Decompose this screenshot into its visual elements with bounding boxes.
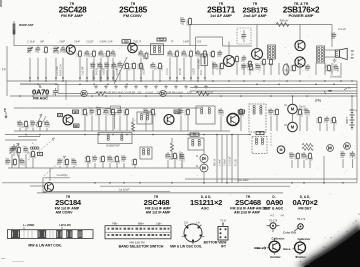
resistor second row bbox=[140, 62, 142, 64]
capacitor bbox=[46, 120, 48, 122]
svg-text:M: M bbox=[280, 148, 283, 152]
resistor bbox=[319, 116, 321, 118]
wire driver verticals bbox=[228, 42, 230, 56]
resistor bbox=[221, 62, 223, 64]
dark label box near TR6a bbox=[239, 110, 245, 113]
svg-text:C5uF: C5uF bbox=[9, 146, 12, 152]
svg-text:30P: 30P bbox=[338, 67, 340, 72]
transistor TR4 2SB171 bbox=[224, 56, 235, 67]
svg-text:T1-8: T1-8 bbox=[220, 219, 226, 223]
svg-text:AM 1st IF AMP: AM 1st IF AMP bbox=[146, 211, 171, 215]
label TR5 2SB175 2nd AF AMP bbox=[243, 2, 268, 18]
capacitor bbox=[91, 108, 93, 110]
svg-text:2.2K: 2.2K bbox=[336, 119, 338, 124]
svg-text:D.: D. bbox=[196, 165, 199, 168]
resistor bbox=[112, 108, 114, 110]
svg-text:C30P: C30P bbox=[268, 108, 271, 114]
svg-text:D.: D. bbox=[196, 155, 199, 158]
dark label box LV bbox=[58, 114, 63, 117]
svg-text:R470: R470 bbox=[237, 109, 240, 115]
resistor bbox=[87, 155, 89, 157]
svg-text:10uF: 10uF bbox=[241, 33, 244, 39]
svg-text:M: M bbox=[291, 107, 295, 112]
resistor bbox=[152, 108, 154, 110]
svg-text:LA: LA bbox=[196, 221, 200, 225]
resistor R8 bbox=[159, 62, 161, 64]
output transformer T7 bbox=[317, 46, 325, 63]
svg-text:0.01: 0.01 bbox=[167, 51, 170, 56]
capacitor bbox=[335, 64, 337, 66]
svg-text:R 6.8K: R 6.8K bbox=[180, 68, 182, 75]
capacitor C4 bbox=[62, 46, 64, 48]
capacitor bbox=[307, 64, 309, 66]
wire bus y84 bbox=[20, 83, 357, 85]
wire bus y93 bbox=[200, 93, 357, 95]
svg-text:20P: 20P bbox=[115, 53, 117, 58]
capacitor second row bbox=[92, 62, 94, 64]
svg-text:R56K: R56K bbox=[294, 153, 297, 159]
IFT box T2 bbox=[137, 112, 152, 124]
AM antenna arrows bbox=[36, 114, 46, 127]
svg-text:MW & LW OSC COIL: MW & LW OSC COIL bbox=[170, 244, 202, 248]
svg-text:20P: 20P bbox=[76, 161, 78, 166]
wire bus y186 bbox=[100, 185, 290, 187]
wire bus y183 bbox=[2, 182, 357, 184]
svg-text:C20P: C20P bbox=[241, 63, 244, 69]
wire bus y96 bbox=[10, 95, 357, 97]
svg-text:FM DET: FM DET bbox=[298, 207, 312, 211]
resistor R4 bbox=[146, 52, 148, 54]
vertical wires detector strip bbox=[216, 135, 218, 183]
svg-text:R220: R220 bbox=[36, 121, 39, 127]
wire left edge vertical bbox=[6, 46, 8, 96]
capacitor bbox=[105, 108, 107, 110]
capacitor bbox=[220, 108, 222, 110]
svg-text:33K: 33K bbox=[143, 55, 146, 60]
wire lower rail y168 bbox=[8, 167, 200, 169]
svg-text:C+100uF: C+100uF bbox=[230, 156, 232, 166]
capacitor bbox=[167, 152, 169, 154]
svg-text:C10uF: C10uF bbox=[340, 150, 343, 158]
resistor bbox=[309, 152, 311, 154]
small box label T bbox=[38, 152, 43, 155]
svg-text:Ca 10uF: Ca 10uF bbox=[119, 187, 130, 191]
resistor bbox=[293, 64, 295, 66]
wire TR3 base bbox=[30, 185, 45, 187]
resistor bbox=[18, 146, 20, 148]
diode D6 0A70 bbox=[344, 143, 351, 150]
wire y136 bbox=[18, 136, 40, 138]
svg-text:C100P: C100P bbox=[212, 61, 215, 69]
IFT T4 box bbox=[140, 147, 152, 159]
label D1 0A70 FM AGC bbox=[32, 84, 49, 100]
resistor R14 zigzag bbox=[196, 92, 209, 96]
svg-text:0.02: 0.02 bbox=[260, 66, 262, 71]
svg-text:1K: 1K bbox=[243, 113, 245, 116]
svg-text:R560: R560 bbox=[123, 109, 126, 115]
resistor lower bbox=[14, 158, 16, 160]
IFT T5 box bbox=[188, 138, 204, 150]
svg-text:C10uF: C10uF bbox=[89, 107, 92, 115]
svg-text:10uF: 10uF bbox=[217, 51, 220, 57]
svg-text:18P: 18P bbox=[40, 41, 45, 44]
svg-text:BATT: BATT bbox=[345, 116, 349, 123]
junction sub box bbox=[111, 106, 121, 113]
resistor second row bbox=[126, 62, 128, 64]
svg-text:5uF: 5uF bbox=[241, 57, 244, 62]
svg-text:C0.04: C0.04 bbox=[304, 108, 307, 115]
svg-text:0.01: 0.01 bbox=[184, 157, 186, 162]
IFT T2 box bbox=[98, 133, 132, 144]
svg-text:R220: R220 bbox=[11, 159, 14, 165]
svg-text:10uF: 10uF bbox=[309, 110, 311, 116]
svg-text:100: 100 bbox=[73, 111, 78, 114]
svg-text:R220: R220 bbox=[247, 64, 250, 70]
capacitor bbox=[73, 158, 75, 160]
svg-text:FM AGC: FM AGC bbox=[33, 96, 48, 100]
capacitor bbox=[291, 152, 293, 154]
capacitor C6 bbox=[100, 50, 102, 52]
svg-text:R33K: R33K bbox=[149, 109, 152, 115]
svg-text:Collector: Collector bbox=[297, 237, 311, 241]
wire bus y81 bbox=[7, 80, 357, 82]
svg-text:FM CONV: FM CONV bbox=[123, 13, 142, 18]
svg-text:R10K: R10K bbox=[113, 156, 116, 162]
svg-text:R330: R330 bbox=[171, 153, 174, 159]
svg-text:C0.04: C0.04 bbox=[121, 155, 124, 162]
capacitor bbox=[181, 154, 183, 156]
svg-text:0.04uF: 0.04uF bbox=[225, 158, 227, 166]
capacitor C7 bbox=[112, 50, 114, 52]
svg-text:R 1K: R 1K bbox=[201, 69, 203, 75]
capacitor bbox=[119, 108, 121, 110]
faint dash bottom left bbox=[1, 257, 5, 260]
svg-text:T.: T. bbox=[39, 153, 41, 156]
svg-text:C30uF: C30uF bbox=[5, 157, 8, 165]
svg-text:COUPLER: COUPLER bbox=[124, 92, 136, 95]
variable capacitor AM tuning bbox=[10, 144, 20, 157]
svg-text:C 10uF: C 10uF bbox=[27, 41, 35, 44]
resistor zigzag vertical bbox=[170, 143, 173, 151]
capacitor lower bbox=[7, 158, 9, 160]
svg-text:L.: L. bbox=[32, 142, 34, 145]
osc coil bottom view bbox=[182, 221, 205, 245]
electrolytic cap near 0A70 bbox=[55, 88, 57, 91]
svg-text:C5P: C5P bbox=[324, 118, 327, 123]
FM osc coil box bbox=[151, 44, 164, 55]
svg-text:100K: 100K bbox=[162, 65, 164, 71]
svg-text:W1656700P: W1656700P bbox=[106, 145, 120, 148]
svg-text:AM 2nd IF AMP: AM 2nd IF AMP bbox=[234, 211, 261, 215]
svg-text:TB-17k: TB-17k bbox=[297, 217, 306, 221]
svg-text:0.04: 0.04 bbox=[150, 63, 153, 68]
resistor bbox=[187, 108, 189, 110]
svg-text:C10P: C10P bbox=[218, 108, 221, 114]
wire speaker leads bbox=[325, 49, 335, 51]
coil L1 bbox=[45, 46, 47, 48]
svg-text:M: M bbox=[291, 125, 295, 130]
label TR4 2SC468 FM 2nd IF AMP AM 1st IF AMP bbox=[144, 195, 172, 215]
transistor TR7 2SB176 bbox=[295, 40, 305, 50]
capacitor C8 bbox=[140, 50, 142, 52]
svg-text:C10P: C10P bbox=[90, 62, 93, 68]
svg-text:0.04F: 0.04F bbox=[74, 41, 81, 44]
svg-text:WHIP ANT: WHIP ANT bbox=[19, 23, 34, 27]
svg-text:0.01uF: 0.01uF bbox=[146, 92, 154, 95]
svg-text:BAND SELECTOR SWITCH: BAND SELECTOR SWITCH bbox=[119, 245, 164, 249]
svg-text:7117: 7117 bbox=[159, 38, 165, 42]
jack M2 bbox=[288, 122, 298, 132]
svg-text:MW & LW ANT COIL: MW & LW ANT COIL bbox=[28, 243, 62, 247]
IFT bottom view bbox=[218, 219, 228, 241]
IFT box T3 bbox=[196, 106, 215, 124]
resistor bbox=[174, 152, 176, 154]
svg-text:100P: 100P bbox=[24, 160, 26, 166]
wire x324 vertical bbox=[323, 156, 325, 183]
resistor R3 bbox=[107, 50, 109, 52]
svg-text:4.7K: 4.7K bbox=[90, 52, 93, 57]
resistor bbox=[240, 108, 242, 110]
dashed vertical ratio box lower bbox=[270, 133, 272, 146]
svg-text:R100K: R100K bbox=[95, 108, 98, 116]
diode D5 0A70 bbox=[327, 145, 334, 152]
svg-text:RB: RB bbox=[74, 125, 78, 128]
transistor TR4a 2SC468 IF bbox=[164, 115, 174, 125]
svg-text:R56K: R56K bbox=[186, 19, 189, 25]
diode D3 1S1211 bbox=[200, 164, 208, 172]
ground row under FM section bbox=[94, 85, 214, 95]
svg-text:R1K: R1K bbox=[218, 64, 221, 69]
transistor TR3 2SC184 bbox=[45, 183, 54, 192]
tuning gang arrow bbox=[28, 138, 55, 160]
svg-text:C0.05: C0.05 bbox=[289, 152, 292, 159]
svg-text:C5P: C5P bbox=[111, 64, 114, 69]
svg-text:CA: CA bbox=[184, 221, 188, 225]
svg-text:2nd AF AMP: 2nd AF AMP bbox=[243, 13, 267, 18]
svg-text:C 0.01: C 0.01 bbox=[167, 68, 169, 75]
svg-text:R1K: R1K bbox=[306, 154, 309, 159]
wire diagonal TR2 to AGC bbox=[114, 57, 127, 84]
jack M3 bbox=[277, 146, 285, 154]
ratio det transformer box bbox=[249, 104, 266, 132]
svg-text:+(-): +(-) bbox=[270, 214, 274, 217]
resistor R10 bbox=[236, 55, 238, 57]
svg-text:Base: Base bbox=[283, 247, 291, 251]
capacitor second row bbox=[113, 62, 115, 64]
wire jack connectors bbox=[292, 96, 294, 104]
svg-text:5P: 5P bbox=[60, 49, 63, 52]
capacitor C13 bbox=[152, 62, 154, 64]
svg-text:22P: 22P bbox=[181, 52, 184, 57]
resistor bbox=[66, 158, 68, 160]
tuning gang arrow 2 bbox=[44, 156, 66, 176]
capacitor C2 bbox=[37, 46, 39, 48]
wire bus y134 bbox=[5, 134, 250, 136]
svg-text:IFT: IFT bbox=[221, 244, 226, 248]
resistor bbox=[116, 155, 118, 157]
svg-text:C05: C05 bbox=[197, 41, 202, 44]
capacitor bbox=[326, 116, 328, 118]
antenna whip bbox=[13, 21, 34, 46]
svg-text:VOLUME: VOLUME bbox=[199, 59, 201, 69]
svg-text:C10P: C10P bbox=[92, 155, 95, 161]
svg-text:C0517F: C0517F bbox=[133, 41, 142, 44]
resistor bbox=[102, 155, 104, 157]
svg-text:0.04uF: 0.04uF bbox=[116, 92, 124, 95]
label D2 D3 1S1211x2 AGC bbox=[190, 195, 222, 211]
svg-text:C45P: C45P bbox=[59, 41, 65, 44]
svg-text:0.04: 0.04 bbox=[355, 154, 357, 159]
resistor R12 bbox=[263, 58, 265, 60]
battery BATT bbox=[345, 107, 357, 130]
resistor R9 bbox=[212, 50, 214, 52]
capacitor top left of AF bbox=[182, 17, 184, 20]
capacitor C9 bbox=[169, 50, 171, 52]
svg-text:C4545: C4545 bbox=[99, 41, 107, 44]
svg-text:C50P: C50P bbox=[305, 64, 308, 70]
svg-text:C50P: C50P bbox=[44, 120, 47, 126]
wire FM top rail bbox=[14, 45, 207, 47]
capacitor bbox=[59, 158, 61, 160]
capacitor bbox=[123, 155, 125, 157]
svg-text:R330: R330 bbox=[316, 117, 319, 123]
svg-text:2.2 uF: 2.2 uF bbox=[338, 27, 346, 31]
svg-text:T.P: T.P bbox=[3, 108, 7, 112]
svg-text:Collector: Collector bbox=[271, 236, 285, 240]
ground speaker bbox=[334, 59, 336, 61]
wire AF input bbox=[196, 36, 223, 38]
capacitor bbox=[180, 108, 182, 110]
resistor bbox=[276, 108, 278, 110]
wire lower rail y140 bbox=[5, 139, 37, 141]
svg-text:100K: 100K bbox=[143, 65, 145, 71]
svg-text:C+4uF: C+4uF bbox=[220, 158, 222, 166]
capacitor lower bbox=[21, 158, 23, 160]
svg-text:Ca0.04F: Ca0.04F bbox=[83, 66, 85, 75]
svg-text:C100P: C100P bbox=[180, 16, 183, 24]
capacitor C11 bbox=[197, 50, 199, 52]
svg-text:0.01: 0.01 bbox=[110, 51, 113, 56]
diode D1b bbox=[160, 90, 166, 96]
wire right edge bus bbox=[356, 81, 358, 183]
ferrite rod MW LW ant coil bbox=[8, 223, 94, 238]
label TR3 2SC184 FM 1st IF AMP AM CONV bbox=[55, 195, 82, 215]
dark label box C05 bbox=[122, 40, 131, 43]
transistor TR3a 2SC184 IF bbox=[63, 115, 73, 125]
resistor R11 bbox=[249, 60, 251, 62]
svg-text:C5P: C5P bbox=[165, 154, 168, 159]
tiny labels above FM rail bbox=[27, 41, 202, 44]
wire power amp top rail bbox=[190, 24, 332, 26]
capacitor C16 2.2uF bbox=[333, 32, 335, 34]
label TR7 TR8 2SB176x2 POWER AMP bbox=[283, 2, 320, 18]
svg-text:1K: 1K bbox=[267, 62, 270, 65]
resistor R feedback 400 bbox=[276, 23, 289, 27]
svg-text:LW (LW): LW (LW) bbox=[59, 223, 70, 227]
svg-text:R2.2K: R2.2K bbox=[109, 108, 112, 115]
svg-text:C0.02: C0.02 bbox=[178, 108, 181, 115]
svg-text:0.04uF: 0.04uF bbox=[176, 92, 184, 95]
svg-text:C10uF: C10uF bbox=[333, 63, 336, 71]
svg-text:AGC: AGC bbox=[201, 207, 209, 211]
svg-text:C30P: C30P bbox=[97, 62, 100, 68]
capacitor bbox=[11, 146, 13, 148]
svg-text:C20P: C20P bbox=[179, 154, 182, 160]
wire y84 left bbox=[20, 83, 58, 85]
capacitor bbox=[270, 108, 272, 110]
svg-text:RtB 1K: RtB 1K bbox=[214, 158, 217, 166]
svg-text:R 2.2K: R 2.2K bbox=[236, 159, 238, 166]
svg-text:R 56K 10%: R 56K 10% bbox=[61, 64, 63, 76]
svg-text:10P: 10P bbox=[98, 52, 101, 57]
resistor bbox=[250, 63, 252, 65]
svg-text:10P: 10P bbox=[49, 123, 51, 128]
svg-text:R4.7K: R4.7K bbox=[130, 62, 133, 69]
capacitor C5 bbox=[86, 50, 88, 52]
capacitor bbox=[214, 62, 216, 64]
svg-text:10K: 10K bbox=[76, 53, 79, 58]
svg-text:C0.01: C0.01 bbox=[19, 158, 22, 165]
wire bus y179 bbox=[185, 178, 357, 180]
wire mid rail y108 bbox=[14, 107, 200, 109]
svg-text:C30uF: C30uF bbox=[117, 107, 120, 115]
svg-text:Ca+10uF: Ca+10uF bbox=[237, 178, 249, 182]
svg-text:C05: C05 bbox=[124, 40, 129, 44]
label TR2 2SC185 FM CONV bbox=[119, 2, 148, 18]
wire bus y91 bbox=[190, 90, 357, 92]
capacitor second row bbox=[106, 62, 108, 64]
svg-text:Demand(B): Demand(B) bbox=[330, 77, 342, 79]
resistor second row bbox=[133, 62, 135, 64]
resistor top left of AF bbox=[189, 17, 191, 19]
resistor bbox=[126, 108, 128, 110]
svg-text:C50P: C50P bbox=[301, 152, 304, 158]
svg-text:0.01: 0.01 bbox=[35, 47, 38, 52]
resistor R15 zigzag bbox=[96, 92, 106, 96]
dark label box near TR4a bbox=[174, 110, 180, 113]
svg-text:3.5P: 3.5P bbox=[108, 41, 113, 44]
label TR1 2SC428 FM RF AMP bbox=[59, 2, 88, 18]
capacitor bbox=[342, 151, 344, 153]
svg-text:C0.02: C0.02 bbox=[71, 158, 74, 165]
svg-text:C0.04: C0.04 bbox=[104, 62, 107, 69]
svg-text:C0.05: C0.05 bbox=[255, 63, 258, 70]
svg-text:4.7K: 4.7K bbox=[187, 92, 192, 95]
svg-text:C201F: C201F bbox=[86, 41, 94, 44]
label TR6 2SC468 FM 3rd IF AMP AM 2nd IF AMP bbox=[230, 195, 270, 215]
transistor TR2 2SC185 bbox=[128, 43, 138, 53]
jack M1 bbox=[288, 104, 298, 114]
resistor R13 bbox=[270, 58, 272, 60]
svg-text:T.P.: T.P. bbox=[2, 68, 7, 72]
wire x66 vertical bbox=[65, 80, 67, 100]
wire mid rail y131 bbox=[14, 130, 230, 132]
svg-text:1K: 1K bbox=[187, 54, 190, 57]
capacitor bbox=[145, 108, 147, 110]
svg-text:Base: Base bbox=[256, 246, 264, 250]
svg-text:C30P: C30P bbox=[107, 155, 110, 161]
resistor bbox=[98, 108, 100, 110]
svg-text:R330: R330 bbox=[137, 63, 140, 69]
capacitor C12 bbox=[119, 61, 121, 63]
wire slant bbox=[14, 146, 19, 161]
capacitor second row bbox=[99, 62, 101, 64]
svg-text:TS-17k: TS-17k bbox=[269, 218, 278, 222]
svg-text:LV: LV bbox=[58, 114, 61, 117]
scan noise speckles bbox=[15, 22, 347, 196]
svg-text:40P: 40P bbox=[117, 63, 120, 68]
svg-text:R15K: R15K bbox=[84, 156, 87, 162]
